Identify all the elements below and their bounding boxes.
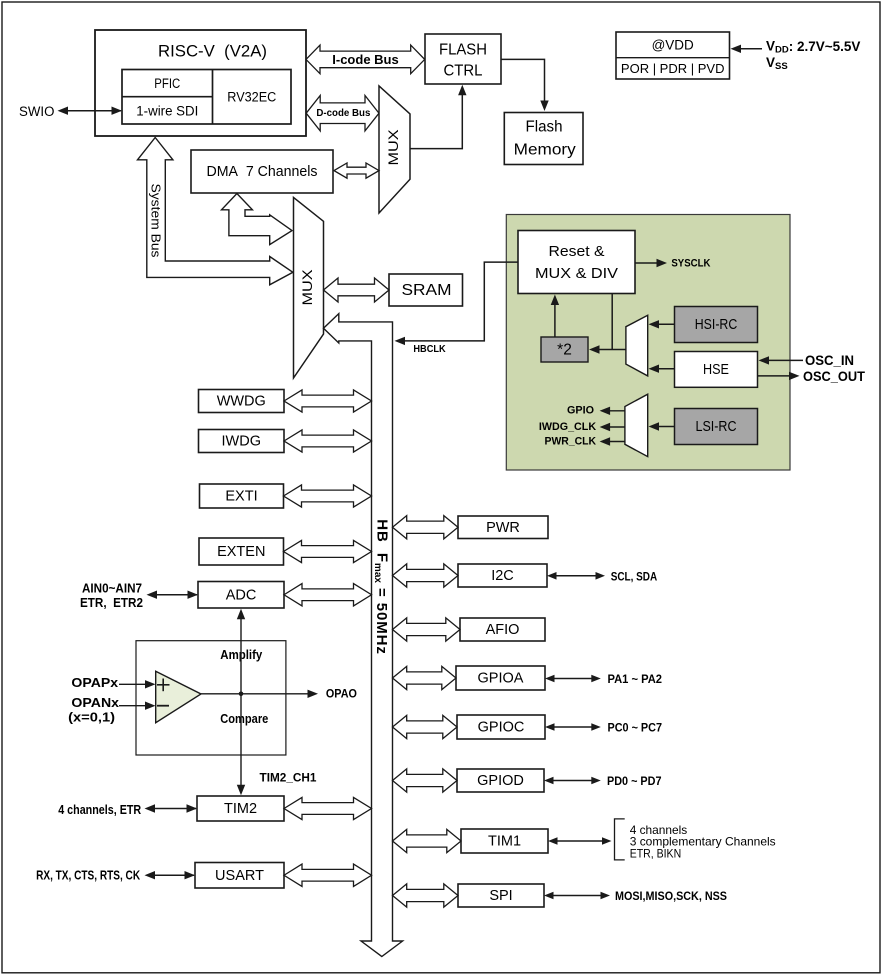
bus HB to GPIOC	[393, 715, 458, 738]
wire TIM1 external	[551, 840, 610, 842]
block ADC	[198, 582, 284, 609]
svg-text:EXTI: EXTI	[225, 489, 257, 505]
svg-text:Flash: Flash	[526, 119, 563, 136]
wire ADC external signals	[149, 594, 197, 596]
wire LSI-RC to MUX4	[656, 426, 675, 428]
svg-text:AIN0~AIN7: AIN0~AIN7	[82, 582, 142, 596]
svg-text:Reset &: Reset &	[549, 243, 605, 260]
block PWR	[458, 516, 548, 539]
block opamp container	[136, 641, 286, 755]
svg-text:PWR_CLK: PWR_CLK	[545, 436, 597, 448]
svg-text:TIM2: TIM2	[224, 801, 257, 817]
wire GPIO clock out	[608, 410, 625, 412]
label opamp minus input	[157, 705, 169, 707]
block AFIO	[460, 618, 545, 641]
svg-text:AFIO: AFIO	[486, 622, 520, 638]
wire OSC_OUT	[758, 375, 792, 377]
svg-text:SCL, SDA: SCL, SDA	[611, 569, 658, 583]
wire IWDG_CLK out	[608, 426, 625, 428]
bus D-code (RISC-V to MUX)	[306, 96, 379, 131]
block RISC-V (V2A) outer	[95, 30, 306, 136]
bus HB to I2C	[393, 564, 459, 587]
bus IWDG to HB	[284, 430, 372, 452]
wire Reset&MUX&DIV down to mux3 output line	[611, 294, 613, 350]
svg-text:PD0 ~ PD7: PD0 ~ PD7	[607, 774, 662, 788]
wire HBCLK (Reset&MUX&DIV to HB bus)	[404, 262, 518, 341]
wire OSC_IN	[766, 359, 803, 361]
wire I2C external	[550, 575, 603, 577]
svg-text:1-wire SDI: 1-wire SDI	[136, 103, 198, 118]
bus EXTI to HB	[284, 485, 372, 507]
svg-text:MOSI,MISO,SCK, NSS: MOSI,MISO,SCK, NSS	[615, 889, 727, 903]
bus HB to GPIOD	[393, 769, 458, 792]
wire VDD supply arrow	[739, 48, 762, 50]
svg-text:SRAM: SRAM	[402, 282, 452, 299]
svg-text:I-code Bus: I-code Bus	[332, 52, 398, 67]
bus WWDG to HB	[284, 390, 372, 412]
bus I-code (RISC-V to FLASH CTRL)	[306, 45, 425, 74]
wire MUX1 to FLASH CTRL	[410, 94, 462, 149]
wire HSI-RC to MUX3	[656, 323, 675, 325]
bus HB vertical (Fmax=50MHz)	[324, 314, 403, 957]
svg-text:TIM1: TIM1	[488, 834, 521, 850]
svg-text:System Bus: System Bus	[148, 184, 163, 259]
bus HB to TIM1	[393, 829, 462, 852]
svg-text:PC0 ~ PC7: PC0 ~ PC7	[608, 721, 663, 735]
mux MUX2 (system)	[294, 197, 324, 378]
mux MUX1 (code/dma)	[379, 86, 410, 213]
svg-text:PA1 ~ PA2: PA1 ~ PA2	[608, 672, 663, 686]
mux MUX3 (HSI/HSE select)	[626, 315, 648, 376]
svg-text:GPIO: GPIO	[567, 405, 594, 417]
block PFIC / 1-wire SDI / RV32EC inner	[122, 70, 291, 125]
svg-text:VSS: VSS	[766, 55, 788, 72]
mux MUX4 (LSI distribution)	[625, 394, 648, 456]
bus HB to AFIO	[393, 618, 461, 641]
block I2C	[458, 564, 547, 587]
block FLASH CTRL	[425, 34, 501, 84]
block WWDG	[199, 390, 285, 413]
block HSI-RC	[675, 307, 758, 343]
svg-text:I2C: I2C	[491, 568, 514, 584]
bus USART to HB	[284, 864, 372, 886]
svg-text:FLASH: FLASH	[439, 42, 487, 59]
svg-text:MUX & DIV: MUX & DIV	[535, 265, 618, 282]
svg-text:HB Fmax = 50MHz: HB Fmax = 50MHz	[372, 519, 390, 655]
svg-text:SWIO: SWIO	[19, 104, 54, 119]
wire SWIO to 1-wire SDI (double arrow)	[60, 110, 121, 112]
svg-text:4 channels, ETR: 4 channels, ETR	[58, 803, 141, 817]
block EXTI	[200, 484, 284, 508]
svg-text:GPIOC: GPIOC	[478, 720, 525, 736]
wire SYSCLK out	[635, 262, 658, 264]
svg-text:OPAPx: OPAPx	[71, 676, 118, 690]
block SPI	[458, 884, 544, 907]
block LSI-RC	[675, 409, 758, 445]
wire HSE to MUX3	[656, 368, 675, 370]
block @VDD / POR PDR PVD	[616, 32, 730, 79]
svg-text:USART: USART	[215, 868, 264, 884]
svg-text:DMA 7 Channels: DMA 7 Channels	[207, 164, 318, 180]
svg-text:TIM2_CH1: TIM2_CH1	[260, 773, 318, 785]
svg-text:WWDG: WWDG	[217, 394, 266, 410]
svg-text:MUX: MUX	[386, 130, 401, 166]
wire USART external	[147, 874, 194, 876]
svg-text:OSC_IN: OSC_IN	[805, 353, 854, 368]
svg-text:RX, TX, CTS, RTS, CK: RX, TX, CTS, RTS, CK	[36, 869, 140, 883]
wire GPIOD external	[547, 780, 599, 782]
bus DMA elbow (to DMA and MUX2)	[222, 194, 293, 245]
wire PWR_CLK out	[608, 441, 625, 443]
divider PFIC/RV32EC	[212, 70, 214, 125]
block Flash Memory	[504, 113, 583, 165]
block USART	[195, 863, 284, 889]
wire OPAO output	[201, 693, 310, 695]
svg-text:GPIOD: GPIOD	[477, 773, 524, 789]
block HSE	[675, 352, 758, 388]
wire TIM2 external	[147, 808, 196, 810]
svg-text:OPAO: OPAO	[326, 687, 357, 701]
svg-text:CTRL: CTRL	[444, 63, 483, 80]
svg-text:ETR, ETR2: ETR, ETR2	[80, 596, 143, 610]
block DMA 7 Channels	[191, 150, 333, 193]
svg-text:HSE: HSE	[703, 362, 729, 378]
wire OPANx input	[119, 705, 148, 707]
svg-text:ADC: ADC	[226, 587, 257, 603]
block TIM2	[197, 796, 284, 821]
op-amp OPA triangle	[156, 671, 201, 722]
svg-text:GPIOA: GPIOA	[478, 671, 524, 687]
block GPIOD	[457, 769, 544, 792]
svg-text:OSC_OUT: OSC_OUT	[803, 369, 866, 384]
svg-text:(x=0,1): (x=0,1)	[68, 711, 115, 725]
clock/reset green region	[506, 215, 790, 471]
bus MUX2 to SRAM	[324, 278, 390, 302]
block TIM1	[461, 829, 548, 853]
bus DMA to MUX1	[334, 163, 379, 178]
wire SPI external	[547, 895, 608, 897]
block SRAM	[389, 274, 463, 306]
bracket TIM1 signals	[615, 819, 625, 860]
svg-text:PFIC: PFIC	[154, 76, 180, 91]
svg-text:IWDG_CLK: IWDG_CLK	[539, 421, 596, 433]
block EXTEN	[199, 538, 284, 565]
bus ADC to HB	[284, 584, 372, 606]
block IWDG	[199, 430, 285, 453]
wire GPIOA external	[548, 678, 599, 680]
svg-text:Compare: Compare	[220, 711, 268, 726]
wire *2 to Reset&MUX&DIV	[554, 302, 556, 337]
block GPIOA	[456, 666, 545, 690]
block *2 multiplier	[541, 337, 588, 362]
svg-text:D-code Bus: D-code Bus	[316, 108, 370, 119]
bus HB to GPIOA	[393, 666, 457, 689]
wire ADC-opamp-TIM2 vertical	[240, 612, 242, 791]
svg-text:HBCLK: HBCLK	[413, 343, 446, 355]
bus HB to SPI	[393, 884, 459, 907]
wire FLASH CTRL to Flash Memory	[501, 59, 545, 101]
svg-text:RV32EC: RV32EC	[227, 90, 276, 105]
svg-text:PWR: PWR	[486, 520, 520, 536]
node junction dot	[239, 692, 244, 697]
svg-text:SYSCLK: SYSCLK	[671, 257, 710, 269]
bus EXTEN to HB	[284, 540, 372, 562]
wire GPIOC external	[548, 726, 599, 728]
svg-text:OPANx: OPANx	[71, 696, 119, 710]
svg-text:SPI: SPI	[489, 888, 512, 904]
bus System Bus (RISC-V to MUX2)	[138, 138, 293, 285]
svg-text:*2: *2	[557, 342, 572, 359]
bus TIM2 to HB	[284, 797, 372, 819]
svg-text:MUX: MUX	[300, 270, 315, 306]
wire mux3 to *2	[597, 349, 626, 351]
svg-text:Memory: Memory	[514, 142, 576, 159]
block GPIOC	[457, 715, 545, 739]
divider @VDD/POR	[616, 57, 730, 59]
svg-text:IWDG: IWDG	[222, 434, 261, 450]
svg-text:HSI-RC: HSI-RC	[695, 317, 738, 333]
bus HB to PWR	[393, 516, 459, 539]
svg-text:@VDD: @VDD	[652, 38, 694, 53]
label opamp plus input	[157, 684, 170, 686]
svg-text:VDD: 2.7V~5.5V: VDD: 2.7V~5.5V	[766, 39, 860, 56]
wire OPAPx input	[119, 683, 148, 685]
svg-text:LSI-RC: LSI-RC	[696, 419, 737, 435]
svg-text:EXTEN: EXTEN	[217, 544, 265, 560]
svg-text:ETR, BIKN: ETR, BIKN	[630, 847, 682, 861]
svg-text:POR | PDR | PVD: POR | PDR | PVD	[621, 61, 725, 76]
block Reset & MUX & DIV	[518, 231, 635, 294]
svg-text:RISC-V (V2A): RISC-V (V2A)	[158, 42, 267, 61]
divider PFIC/1-wire SDI	[122, 96, 213, 98]
